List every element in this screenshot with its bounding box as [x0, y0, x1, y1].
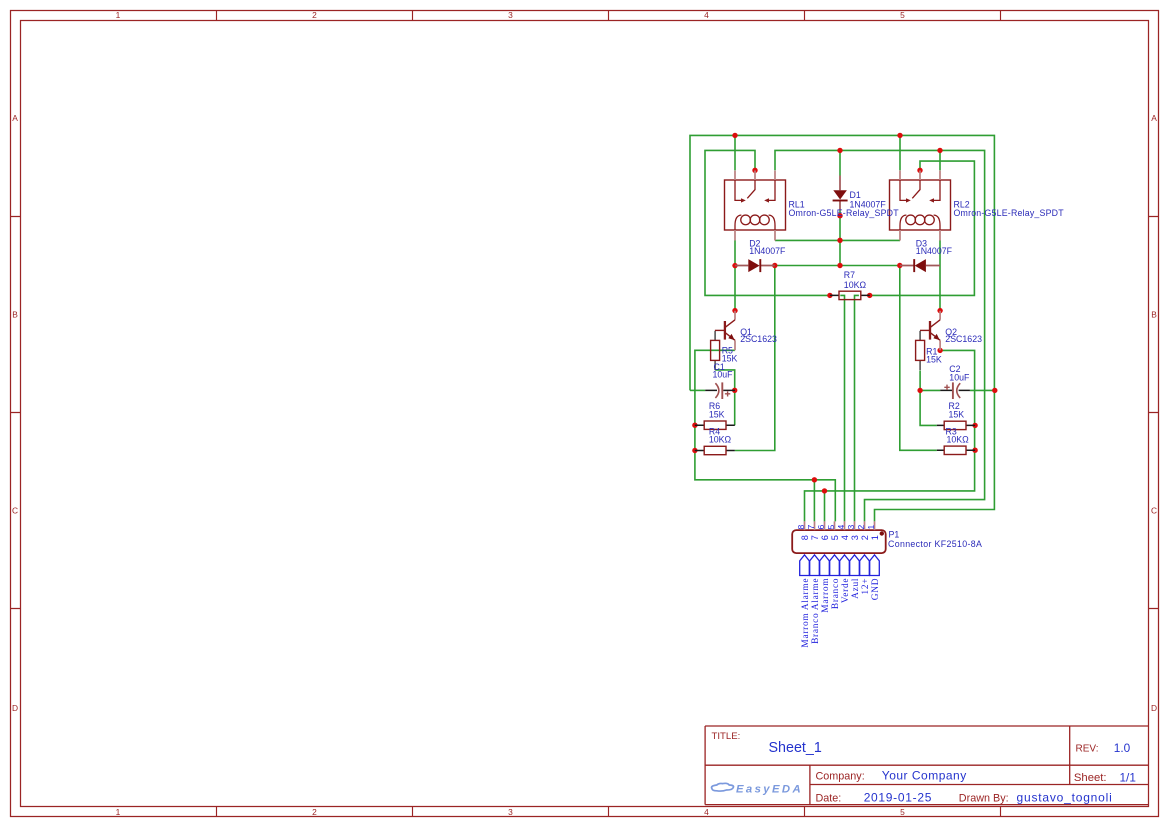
svg-text:REV:: REV: [1076, 744, 1099, 755]
junction [937, 148, 942, 153]
net flag GND [870, 555, 880, 576]
net flag 12+ [860, 555, 870, 576]
svg-text:1: 1 [866, 525, 876, 530]
svg-text:2SC1623: 2SC1623 [740, 334, 777, 344]
svg-text:Date:: Date: [816, 792, 842, 804]
svg-text:Connector KF2510-8A: Connector KF2510-8A [888, 539, 982, 549]
svg-text:4: 4 [704, 10, 709, 20]
junction [692, 448, 697, 453]
svg-text:D: D [1151, 703, 1157, 713]
svg-text:4: 4 [840, 535, 850, 540]
svg-text:10KΩ: 10KΩ [947, 435, 970, 445]
svg-text:1.0: 1.0 [1114, 741, 1131, 755]
junction [972, 423, 977, 428]
junction [837, 238, 842, 243]
svg-text:7: 7 [810, 535, 820, 540]
wire C2 left [920, 389, 940, 391]
svg-text:Verde: Verde [841, 578, 851, 603]
svg-text:3: 3 [850, 535, 860, 540]
junction [752, 168, 757, 173]
resistor R7 10K [830, 291, 870, 299]
component reference and value labels [709, 190, 1064, 549]
svg-text:5: 5 [900, 10, 905, 20]
svg-text:4: 4 [704, 807, 709, 817]
net flag Marrom Alarme [800, 555, 810, 576]
net flag Verde [840, 555, 850, 576]
diode D1 [833, 176, 848, 211]
diode D2 [735, 259, 775, 272]
junction [972, 448, 977, 453]
svg-text:7: 7 [806, 525, 816, 530]
svg-text:EasyEDA: EasyEDA [736, 783, 803, 795]
wire D1 cathode down [839, 211, 841, 266]
wire R4 right up to D2 cathode [735, 266, 775, 451]
svg-text:3: 3 [508, 10, 513, 20]
resistor R3 10K [937, 446, 975, 454]
svg-text:6: 6 [820, 535, 830, 540]
junction [917, 388, 922, 393]
svg-text:P1: P1 [889, 529, 900, 539]
junction [822, 488, 827, 493]
svg-text:Company:: Company: [816, 770, 865, 782]
wire R7 to P1 pin4 [840, 295, 844, 521]
svg-text:B: B [1151, 310, 1157, 320]
wire R1 bottom to R2 left [920, 371, 937, 426]
svg-text:A: A [12, 113, 18, 123]
junction [867, 293, 872, 298]
junction [992, 388, 997, 393]
junction [897, 263, 902, 268]
wire RL2 left pin drop [899, 135, 901, 170]
svg-text:Azul: Azul [851, 578, 861, 599]
junction [732, 388, 737, 393]
svg-text:GND: GND [871, 578, 881, 600]
wire P1 pin6 drop [824, 491, 826, 522]
svg-text:15K: 15K [926, 355, 942, 365]
svg-text:2: 2 [312, 10, 317, 20]
resistor R6 15K [695, 421, 735, 429]
svg-text:5: 5 [900, 807, 905, 817]
svg-text:Marrom Alarme: Marrom Alarme [801, 578, 811, 648]
wire RL2 coil right to Q2 collector [939, 240, 941, 310]
svg-text:1: 1 [116, 807, 121, 817]
junction [732, 263, 737, 268]
svg-text:Sheet:: Sheet: [1074, 772, 1107, 784]
junction [732, 308, 737, 313]
svg-text:Branco: Branco [831, 578, 841, 609]
svg-text:8: 8 [796, 525, 806, 530]
wire RL1 left pin drop [734, 135, 736, 170]
relay RL2 [890, 171, 951, 241]
diode D3 [900, 259, 940, 272]
junction [837, 213, 842, 218]
wire D2-D3 row [775, 265, 900, 267]
svg-text:TITLE:: TITLE: [712, 731, 741, 742]
capacitor C1 [705, 382, 735, 399]
resistor R1 15K [916, 331, 925, 370]
net flag Branco [830, 555, 840, 576]
junction [732, 133, 737, 138]
wire C2 right to rail [970, 389, 995, 391]
svg-text:3: 3 [846, 525, 856, 530]
svg-text:2: 2 [856, 525, 866, 530]
svg-text:8: 8 [800, 535, 810, 540]
svg-text:Your Company: Your Company [882, 768, 967, 782]
title block value texts [769, 740, 1136, 804]
junction [917, 168, 922, 173]
wire RL2 right pin drop [939, 150, 941, 170]
wire D1 anode drop [839, 150, 841, 175]
svg-text:10uF: 10uF [713, 369, 734, 379]
junction [897, 133, 902, 138]
relay RL1 [725, 171, 786, 241]
svg-text:D: D [12, 703, 18, 713]
junction [812, 477, 817, 482]
net flag Marrom [820, 555, 830, 576]
svg-text:Drawn By:: Drawn By: [959, 792, 1009, 804]
capacitor C2 [940, 382, 970, 399]
svg-text:5: 5 [830, 535, 840, 540]
svg-text:R7: R7 [844, 270, 855, 280]
connector P1 body [792, 521, 886, 553]
wire top rail to P1 pin1 [690, 135, 994, 521]
junction [937, 308, 942, 313]
svg-text:2019-01-25: 2019-01-25 [864, 790, 932, 804]
wire P1 pin7 drop [813, 480, 815, 522]
svg-text:6: 6 [816, 525, 826, 530]
resistor R5 15K [711, 331, 720, 370]
svg-text:C: C [12, 506, 18, 516]
wire RL1 coil left to Q1 collector [734, 240, 736, 310]
svg-text:1N4007F: 1N4007F [916, 246, 953, 256]
EasyEDA logo [712, 783, 734, 791]
net flag Branco Alarme [810, 555, 820, 576]
junction [937, 348, 942, 353]
svg-text:1N4007F: 1N4007F [850, 200, 887, 210]
svg-text:15K: 15K [709, 410, 725, 420]
svg-text:1: 1 [116, 10, 121, 20]
svg-text:10uF: 10uF [949, 373, 970, 383]
svg-text:10KΩ: 10KΩ [709, 435, 732, 445]
svg-text:1N4007F: 1N4007F [749, 246, 786, 256]
svg-text:Marrom: Marrom [821, 578, 831, 613]
resistor R2 15K [937, 421, 975, 429]
svg-text:1/1: 1/1 [1120, 770, 1136, 784]
resistor R4 10K [695, 446, 735, 454]
svg-text:Sheet_1: Sheet_1 [769, 740, 822, 756]
wire RL1 coil to RL2 coil [775, 239, 900, 241]
svg-text:B: B [12, 310, 18, 320]
wire Q2 emitter net to P1 pin8 [805, 350, 975, 521]
svg-text:12+: 12+ [861, 578, 871, 595]
svg-text:2: 2 [312, 807, 317, 817]
wire R7 to P1 pin3 [855, 295, 859, 521]
wire D3 cathode down to R3 left [900, 266, 937, 451]
wire second rail right to P1 pin2 [775, 150, 985, 521]
wire R5 bottom to C1 right / R6 right [715, 370, 735, 425]
svg-text:15K: 15K [949, 410, 965, 420]
junction [772, 263, 777, 268]
title block frame [705, 726, 1149, 805]
junction [837, 148, 842, 153]
transistor Q1 [715, 311, 735, 351]
title block label texts [712, 731, 1107, 805]
svg-text:2SC1623: 2SC1623 [945, 334, 982, 344]
svg-text:4: 4 [836, 525, 846, 530]
svg-text:3: 3 [508, 807, 513, 817]
svg-text:Omron-G5LE-Relay_SPDT: Omron-G5LE-Relay_SPDT [954, 208, 1065, 218]
svg-text:C: C [1151, 506, 1157, 516]
wire second rail left to R7 left / RL1 mid pin [705, 150, 830, 295]
junction [692, 423, 697, 428]
wire rail to C1 left [690, 389, 705, 391]
P1 pin numbers [796, 525, 880, 541]
svg-text:5: 5 [826, 525, 836, 530]
svg-text:2: 2 [860, 535, 870, 540]
junction [827, 293, 832, 298]
wire RL2 mid pin to R7 right [870, 161, 975, 295]
wire Q1 emitter net to P1 pin5 [695, 350, 835, 521]
svg-text:1: 1 [870, 535, 880, 540]
svg-text:Branco Alarme: Branco Alarme [811, 578, 821, 644]
svg-text:A: A [1151, 113, 1157, 123]
svg-text:gustavo_tognoli: gustavo_tognoli [1017, 790, 1113, 804]
svg-text:10KΩ: 10KΩ [844, 280, 867, 290]
net flag Azul [850, 555, 860, 576]
transistor Q2 [920, 311, 940, 351]
junction [837, 263, 842, 268]
